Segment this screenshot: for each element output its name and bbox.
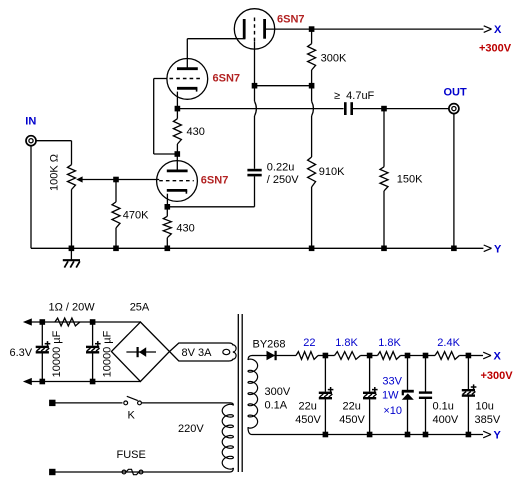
label 1.8K #2	[378, 337, 401, 349]
label +300V (top)	[479, 42, 512, 54]
label 22	[303, 337, 315, 349]
node wiper/470K junction	[113, 177, 119, 183]
terminal N (square)	[49, 469, 55, 475]
node rail/OUT	[451, 246, 457, 252]
label 10000uF #2	[102, 330, 114, 377]
svg-text:X: X	[494, 24, 502, 36]
label 6SN7 (V1a)	[277, 13, 305, 25]
node rail/pot	[69, 246, 75, 252]
wire n3 to n4	[408, 355, 426, 357]
wire 22u-2 leads	[369, 356, 371, 435]
label BY268	[253, 338, 286, 350]
wire wiper to grid V2	[82, 179, 159, 181]
node PSU n2 top	[367, 353, 373, 359]
secondary winding 300V	[248, 359, 258, 428]
wire V1b grid loop	[154, 79, 178, 155]
resistor 150K body	[380, 167, 388, 191]
capacitor 10u	[462, 384, 477, 395]
wire 22 to node1	[318, 355, 325, 357]
node 300K/910K junction	[309, 83, 315, 89]
wire 470K top lead	[115, 180, 117, 202]
wire V1a grid down	[254, 42, 256, 86]
svg-text:10u: 10u	[476, 400, 494, 412]
wire V1a-grid-node down to 0.22u cap (with hop)	[255, 86, 257, 169]
svg-text:450V: 450V	[295, 414, 321, 426]
wire n4 to 2.4K	[426, 355, 436, 357]
svg-text:910K: 910K	[319, 166, 345, 178]
node 430/grid-loop junction	[175, 151, 181, 157]
svg-text:Y: Y	[494, 430, 502, 442]
wire 430-1 top lead	[176, 109, 178, 119]
label 0.1u	[433, 400, 454, 412]
svg-text:6SN7: 6SN7	[277, 13, 305, 25]
wire 6.3V bottom rail	[30, 381, 141, 383]
wire cap to OUT	[353, 108, 449, 110]
capacitor 0.1u	[419, 393, 432, 398]
wire 300K bottom lead	[311, 70, 313, 86]
potentiometer R1 100K body	[68, 165, 76, 190]
node rail n1	[323, 432, 329, 438]
svg-text:150K: 150K	[397, 174, 423, 186]
wire n2 to 1.8K-2	[370, 355, 378, 357]
capacitor 10000uF #1	[36, 341, 51, 352]
switch K	[124, 396, 142, 405]
node V1a grid junction	[252, 83, 258, 89]
wire V1a plate to X (B+) rail	[265, 28, 484, 30]
label 22u #2	[343, 400, 361, 412]
capacitor 22u #2	[363, 387, 378, 398]
capacitor 10000uF #2	[86, 341, 101, 352]
wire 1.8K-1 to node2	[361, 355, 370, 357]
svg-text:1W: 1W	[382, 389, 399, 401]
resistor 470K body	[112, 202, 120, 228]
label Y (top)	[494, 243, 502, 255]
wire 10u leads	[467, 356, 469, 435]
resistor 1.8K #2 body	[378, 352, 401, 360]
svg-text:25A: 25A	[130, 302, 150, 314]
ground (chassis)	[63, 248, 80, 267]
svg-text:470K: 470K	[123, 210, 149, 222]
node rail n3	[405, 432, 411, 438]
arrow X (psu)	[483, 352, 491, 359]
svg-text:10000 µF: 10000 µF	[102, 330, 114, 377]
node rail/910K	[309, 246, 315, 252]
svg-text:450V: 450V	[339, 414, 365, 426]
svg-text:1Ω / 20W: 1Ω / 20W	[49, 302, 96, 314]
label FUSE	[117, 449, 146, 461]
transformer core	[238, 314, 242, 472]
label 25A	[130, 302, 150, 314]
capacitor 22u #1	[319, 387, 334, 398]
svg-text:22: 22	[303, 337, 315, 349]
label 2.4K	[437, 337, 460, 349]
label 430 lower	[176, 222, 194, 234]
svg-text:22u: 22u	[299, 400, 317, 412]
label 150K	[397, 174, 423, 186]
node cap1 top	[40, 319, 46, 325]
terminal L (square)	[49, 400, 55, 406]
capacitor C2 4.7uF plates	[345, 102, 351, 115]
wire n1 to 1.8K-1	[325, 355, 334, 357]
wire node to V2 plate	[176, 154, 178, 171]
resistor 2.4K body	[435, 352, 459, 360]
node 150K top junction	[381, 106, 387, 112]
wire OUT jack down	[453, 114, 455, 248]
label 1W	[382, 389, 399, 401]
wire 1.8K-2 to node3	[401, 355, 408, 357]
svg-text:1.8K: 1.8K	[335, 337, 358, 349]
wire V1b cathode down	[176, 92, 178, 109]
wire mains top to switch	[55, 402, 123, 404]
label 33V	[382, 376, 402, 388]
primary winding 220V	[222, 404, 233, 469]
output jack OUT	[449, 104, 459, 114]
svg-text:33V: 33V	[382, 376, 402, 388]
fuse F1	[122, 469, 143, 474]
label 8V 3A	[182, 347, 213, 359]
label 450V #1	[295, 414, 321, 426]
wire 2.4K to node5	[459, 355, 468, 357]
wire 470K bottom lead	[115, 228, 117, 248]
resistor 430 lower body	[163, 216, 171, 237]
wire pot bottom to rail	[71, 190, 73, 249]
label K	[128, 410, 136, 422]
label 10000uF #1	[51, 330, 63, 377]
label 100K ohm	[49, 154, 61, 191]
node rail/470K	[113, 246, 119, 252]
svg-text:2.4K: 2.4K	[437, 337, 460, 349]
arrow 6.3V+ (left, filled)	[23, 318, 32, 325]
label OUT	[444, 87, 468, 99]
wire PSU bottom rail Y	[252, 434, 483, 436]
svg-text:400V: 400V	[433, 414, 459, 426]
svg-text:430: 430	[187, 126, 205, 138]
node PSU n3 top (zener)	[405, 353, 411, 359]
arrow Y (psu)	[483, 431, 491, 438]
node cap2 bottom	[90, 379, 96, 385]
wire V2 cathode leg	[166, 194, 168, 207]
label X (psu)	[494, 351, 502, 363]
resistor 1.8K #1 body	[335, 352, 361, 360]
node cap2 top	[90, 319, 96, 325]
wire ground rail Y	[31, 247, 483, 249]
svg-text:IN: IN	[25, 115, 36, 127]
svg-text:0.1A: 0.1A	[265, 400, 288, 412]
zener D2 33V symbol	[402, 391, 414, 400]
label 470K	[123, 210, 149, 222]
label 6SN7 (V2)	[201, 174, 229, 186]
label 300V (winding)	[265, 386, 291, 398]
label 450V #2	[339, 414, 365, 426]
wire signal node to coupling cap	[177, 108, 343, 110]
wire 0.1u leads	[425, 356, 427, 435]
svg-text:6.3V: 6.3V	[10, 347, 33, 359]
label 6SN7 (V1b)	[213, 73, 241, 85]
svg-text:220V: 220V	[178, 423, 204, 435]
label X (top)	[494, 24, 502, 36]
node cap1 bottom	[40, 379, 46, 385]
node PSU n5 top (10u)	[466, 353, 472, 359]
node rail n5	[466, 432, 472, 438]
label 10u	[476, 400, 494, 412]
resistor 430 upper body	[173, 119, 181, 144]
wire V1b plate up and over to V1a cathode	[187, 39, 237, 69]
node V1b cathode junction	[175, 106, 181, 112]
wire secondary bottom lead	[248, 427, 252, 434]
wire 6.3V top rail	[30, 321, 141, 323]
triode V2 (6SN7, lower)	[157, 161, 198, 202]
wire 0.22u bottom to cathode node	[167, 176, 254, 207]
node PSU n1 top	[323, 353, 329, 359]
bridge rectifier B1 diamond	[111, 322, 169, 382]
label +300V (psu)	[481, 370, 514, 382]
wire jack to pot top	[36, 141, 71, 165]
wire cap2 leads	[92, 322, 94, 382]
wire 430-1 bottom lead	[176, 144, 178, 154]
svg-text:+300V: +300V	[479, 42, 512, 54]
node V2 cathode junction	[165, 204, 171, 210]
svg-text:0.22u: 0.22u	[267, 162, 295, 174]
label 1.8K #1	[335, 337, 358, 349]
label 0.1A (winding)	[265, 400, 288, 412]
wire 430-2 top lead	[166, 207, 168, 217]
wire 150K bottom lead	[383, 191, 385, 248]
svg-text:22u: 22u	[343, 400, 361, 412]
arrow Y (top)	[484, 245, 492, 252]
svg-text:Y: Y	[494, 243, 502, 255]
svg-text:OUT: OUT	[444, 87, 468, 99]
wire switch to primary	[142, 403, 234, 406]
wire grid node horizontal	[255, 85, 312, 87]
zener D2 33V leads	[407, 356, 409, 435]
resistor 1R body	[55, 318, 80, 326]
label 400V	[433, 414, 459, 426]
svg-text:FUSE: FUSE	[117, 449, 146, 461]
svg-text:/ 250V: / 250V	[267, 174, 299, 186]
diode D1 BY268	[262, 351, 296, 360]
label Y (psu)	[494, 430, 502, 442]
potentiometer wiper arrow	[76, 176, 82, 182]
wire 300K top lead	[311, 29, 313, 44]
label 430 upper	[187, 126, 205, 138]
triode V1a (6SN7, top)	[234, 9, 274, 49]
node rail n4	[423, 432, 429, 438]
label 385V	[475, 414, 501, 426]
node X rail / 300K	[309, 26, 315, 32]
svg-text:6SN7: 6SN7	[201, 174, 229, 186]
wire 910K top lead (with hop)	[312, 86, 314, 157]
svg-text:8V 3A: 8V 3A	[182, 347, 213, 359]
svg-text:6SN7: 6SN7	[213, 73, 241, 85]
wire secondary top lead	[248, 356, 262, 361]
label 220V	[178, 423, 204, 435]
label x10	[383, 405, 402, 417]
svg-text:1.8K: 1.8K	[378, 337, 401, 349]
node rail/150K	[381, 246, 387, 252]
svg-text:430: 430	[176, 222, 194, 234]
filament winding tag 8V 3A	[170, 343, 237, 361]
arrow X (top)	[484, 26, 492, 33]
svg-text:X: X	[494, 351, 502, 363]
wire jack down to ground rail	[30, 146, 32, 248]
node PSU n4 top (0.1u)	[423, 353, 429, 359]
wire 910K bottom lead	[311, 187, 313, 248]
input jack IN	[26, 136, 36, 146]
arrow 6.3V- (left, filled)	[23, 378, 32, 385]
svg-text:×10: ×10	[383, 405, 402, 417]
svg-text:0.1u: 0.1u	[433, 400, 454, 412]
resistor 300K body	[308, 44, 316, 70]
label IN	[25, 115, 36, 127]
svg-text:BY268: BY268	[253, 338, 286, 350]
svg-text:≥ 4.7uF: ≥ 4.7uF	[334, 90, 375, 102]
svg-text:100K Ω: 100K Ω	[49, 154, 61, 191]
label / 250V	[267, 174, 299, 186]
label 6.3V	[10, 347, 33, 359]
label >= 4.7uF	[334, 90, 375, 102]
wire cap1 leads	[41, 322, 43, 382]
svg-text:385V: 385V	[475, 414, 501, 426]
label 22u #1	[299, 400, 317, 412]
node rail n2	[367, 432, 373, 438]
capacitor C1 0.22u plates	[247, 170, 261, 175]
label 910K	[319, 166, 345, 178]
bridge diode symbol	[126, 347, 156, 357]
triode V1b (6SN7, middle)	[167, 59, 208, 100]
wire 430-2 bottom lead	[166, 238, 168, 249]
wire 150K top lead	[383, 109, 385, 167]
resistor 22 body	[296, 352, 318, 360]
wire n5 to X arrow	[468, 355, 483, 357]
label 0.22u	[267, 162, 295, 174]
label 300K	[321, 52, 347, 64]
label 1R/20W	[49, 302, 96, 314]
svg-text:+300V: +300V	[481, 370, 514, 382]
svg-text:300K: 300K	[321, 52, 347, 64]
svg-text:K: K	[128, 410, 136, 422]
svg-text:300V: 300V	[265, 386, 291, 398]
node rail/430-2	[165, 246, 171, 252]
resistor 910K body	[308, 157, 316, 187]
wire primary bottom to fuse	[55, 468, 233, 472]
svg-text:10000 µF: 10000 µF	[51, 330, 63, 377]
wire 22u-1 leads	[324, 356, 326, 435]
